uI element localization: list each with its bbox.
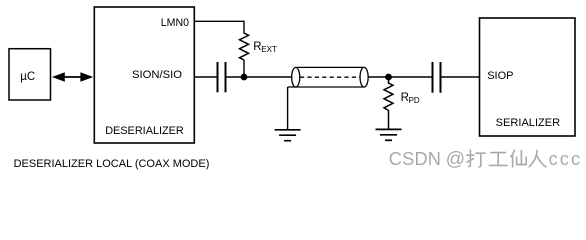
capacitor C2 <box>433 62 441 93</box>
watermark hanzi GONG (work) <box>489 153 508 166</box>
svg-text:PD: PD <box>409 96 420 105</box>
coax shield ground tap wire <box>287 87 289 129</box>
wire node B to capacitor C2 <box>389 76 433 78</box>
wire C2 to serializer SIOP <box>442 76 480 78</box>
wire node A to coax <box>244 76 292 78</box>
svg-text:µC: µC <box>20 71 35 83</box>
svg-text:SION/SIO: SION/SIO <box>132 69 182 81</box>
resistor REXT zigzag <box>240 33 249 60</box>
watermark hanzi XIAN (immortal) <box>510 150 526 168</box>
serializer box U2 <box>480 18 576 136</box>
wire C1 to node A <box>227 76 245 78</box>
node B junction dot <box>385 74 392 81</box>
coax cable cylinder <box>288 67 369 87</box>
capacitor C1 <box>218 62 226 92</box>
svg-text:SERIALIZER: SERIALIZER <box>496 117 560 129</box>
svg-text:DESERIALIZER LOCAL (COAX MODE): DESERIALIZER LOCAL (COAX MODE) <box>14 158 210 170</box>
microcontroller box uC <box>9 49 51 100</box>
wire SION/SIO pin to capacitor C1 <box>194 76 217 78</box>
watermark hanzi REN (person) <box>529 150 547 168</box>
wire REXT to node A <box>243 60 245 77</box>
svg-text:EXT: EXT <box>261 45 277 54</box>
svg-text:LMN0: LMN0 <box>161 17 189 29</box>
svg-text:CSDN: CSDN <box>389 149 441 169</box>
wire LMN0 pin to resistor REXT <box>194 21 244 33</box>
svg-text:@: @ <box>446 149 465 170</box>
deserializer box U1 <box>94 7 194 143</box>
node A junction dot <box>241 74 248 81</box>
svg-text:ccc: ccc <box>549 149 583 169</box>
wire coax to node B <box>368 76 388 78</box>
svg-text:SIOP: SIOP <box>487 70 513 82</box>
ground symbol coax shield <box>275 130 301 141</box>
svg-text:DESERIALIZER: DESERIALIZER <box>105 125 184 137</box>
watermark hanzi DA (strike) <box>466 150 486 167</box>
ground symbol RPD <box>376 129 402 140</box>
resistor RPD zigzag <box>384 77 393 129</box>
bidirectional arrow between uC and deserializer <box>52 72 93 81</box>
